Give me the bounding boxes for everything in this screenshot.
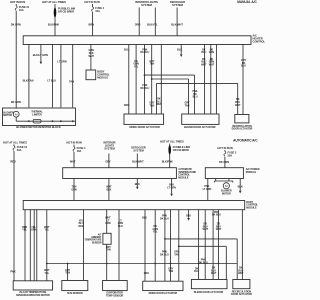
svg-text:DOOR ACTUATOR: DOOR ACTUATOR: [232, 128, 253, 131]
wire GRY/TAN to mode (bottom): [170, 210, 172, 282]
recirculation door actuator box (manual): [235, 115, 249, 123]
wire LT GRN: [60, 45, 62, 108]
svg-text:GRN: GRN: [105, 222, 111, 225]
wire GRY/DK BLU to recirc: [242, 45, 244, 115]
svg-text:HOT IN RUN: HOT IN RUN: [217, 146, 232, 150]
svg-text:BLK: BLK: [238, 185, 243, 189]
svg-text:SYSTEM: SYSTEM: [141, 3, 153, 7]
wire BRN head feed: [92, 4, 94, 7]
in-car temperature sensor box: [13, 281, 52, 290]
blower motor resistor block box: [2, 108, 75, 126]
svg-text:DOOR ACTUATOR: DOOR ACTUATOR: [231, 293, 252, 296]
wire BCM to in-car sensor 3: [33, 210, 35, 281]
blower motor M1: [13, 111, 19, 117]
svg-text:SYSTEM: SYSTEM: [172, 3, 184, 7]
svg-text:LIMITER: LIMITER: [32, 113, 42, 116]
svg-text:BLU: BLU: [241, 65, 246, 68]
svg-text:LT GRN: LT GRN: [167, 187, 176, 190]
svg-text:DK GRN: DK GRN: [219, 160, 229, 164]
svg-text:DK BLU: DK BLU: [140, 51, 149, 54]
svg-text:LT BLU: LT BLU: [47, 79, 56, 83]
svg-text:WHT: WHT: [156, 103, 162, 106]
svg-text:WHT: WHT: [202, 228, 208, 231]
svg-text:MODULE: MODULE: [246, 171, 257, 174]
svg-text:WHT: WHT: [216, 228, 222, 231]
svg-text:BLOWER MOTOR RESISTOR BLOCK: BLOWER MOTOR RESISTOR BLOCK: [16, 125, 61, 129]
svg-text:WHT: WHT: [201, 63, 207, 66]
svg-text:BLU: BLU: [142, 217, 147, 220]
wire DK GRN/YEL to mode (bottom): [154, 210, 156, 282]
svg-text:BLK: BLK: [106, 188, 111, 191]
fuse F10 30A: [13, 146, 15, 150]
svg-text:TEMP SENSOR: TEMP SENSOR: [106, 294, 123, 297]
wire BLK ground arrow (ATC): [136, 179, 138, 187]
junction bus D: [154, 263, 156, 265]
svg-text:10A: 10A: [19, 8, 24, 12]
wire DK GRN blower feed: [15, 4, 17, 6]
svg-text:GRN: GRN: [31, 229, 37, 232]
svg-text:MOTOR: MOTOR: [3, 114, 12, 117]
wire BLK ground arrow (BCM): [188, 210, 190, 218]
svg-text:SENSOR: SENSOR: [92, 242, 102, 244]
svg-text:TAN: TAN: [168, 270, 173, 273]
svg-text:HOT IN RUN: HOT IN RUN: [84, 0, 99, 4]
wire TAN/ORN to BCM: [73, 179, 75, 201]
svg-text:DK GRN: DK GRN: [11, 22, 21, 26]
junction resistor bus 2: [52, 120, 54, 122]
svg-text:LT GRN: LT GRN: [203, 188, 212, 191]
svg-text:A/T: A/T: [98, 233, 102, 236]
wire RED left rail: [13, 144, 15, 146]
wire BLK/WHT to ATC: [136, 154, 138, 168]
svg-text:30A: 30A: [17, 148, 22, 152]
wire BLK/PNK to ATC: [169, 144, 171, 168]
svg-text:10A: 10A: [77, 149, 82, 153]
svg-text:MODULE: MODULE: [178, 176, 189, 179]
junction bus A: [46, 263, 48, 265]
svg-text:MODULE: MODULE: [246, 206, 257, 209]
wire to blower motor right: [228, 179, 230, 182]
svg-text:TAN: TAN: [65, 272, 70, 275]
wire jog PNK/DK BLU to blend actuator: [145, 74, 195, 76]
svg-text:WHT: WHT: [209, 63, 215, 66]
svg-text:SYSTEM: SYSTEM: [104, 146, 114, 150]
wire blend 1 (bottom): [198, 210, 200, 280]
svg-text:YEL: YEL: [45, 229, 50, 232]
wire DK BLU/WHT to mode and recirc: [160, 45, 162, 115]
wire BLK/PNK head feed: [54, 4, 56, 36]
fuse F4 10A: [92, 7, 94, 11]
svg-text:25A: 25A: [228, 154, 233, 158]
wire jog2 to blend (bottom): [179, 245, 227, 247]
fuse F21 10A: [15, 6, 17, 10]
svg-text:BLU: BLU: [124, 47, 129, 51]
svg-text:BLK/PNK: BLK/PNK: [162, 160, 173, 164]
svg-text:HOT AT ALL TIMES: HOT AT ALL TIMES: [42, 0, 66, 4]
svg-text:WHT: WHT: [88, 55, 94, 58]
wire PNK/LT GRN to BCM: [207, 179, 209, 201]
fusible link A: [54, 8, 57, 18]
A/C power module box: [205, 168, 243, 179]
svg-text:WHT: WHT: [70, 160, 76, 164]
svg-text:TAN: TAN: [150, 63, 155, 66]
svg-text:DK GRN: DK GRN: [11, 100, 21, 104]
svg-text:PNK: PNK: [10, 270, 16, 274]
svg-text:OR CB BRKR: OR CB BRKR: [58, 10, 74, 14]
junction resistor bus 4: [72, 120, 74, 122]
svg-text:SENSOR/ASPIRATOR MOTOR: SENSOR/ASPIRATOR MOTOR: [16, 294, 50, 297]
blend door actuator box (bottom): [191, 280, 227, 289]
wire GRY to ATC: [108, 154, 110, 168]
svg-text:AMBIENT: AMBIENT: [91, 236, 102, 239]
svg-text:YEL: YEL: [153, 231, 158, 234]
junction bus E: [170, 263, 172, 265]
svg-text:DK BLU: DK BLU: [212, 214, 221, 217]
wire ORG to mode actuator: [128, 45, 130, 115]
svg-text:ORG: ORG: [135, 22, 141, 26]
svg-text:GRN: GRN: [209, 51, 215, 54]
wire DK GRN to power module: [224, 150, 226, 152]
wire BCM through ambient sensor: [106, 210, 108, 234]
svg-text:YEL: YEL: [45, 272, 50, 275]
svg-text:BLK: BLK: [177, 47, 182, 51]
svg-text:WHT: WHT: [238, 272, 244, 275]
svg-text:BLK: BLK: [186, 214, 191, 217]
svg-text:WHT: WHT: [235, 104, 241, 107]
svg-text:BLU: BLU: [201, 51, 206, 54]
svg-text:DK BLU: DK BLU: [160, 254, 169, 257]
body control module U2 (automatic): [23, 201, 245, 210]
blower motor connector bracket: [214, 180, 232, 182]
wire BLK/LT GRN with arrow: [40, 45, 42, 62]
wire WHT to ATC: [73, 145, 75, 147]
svg-text:BLK/WHT: BLK/WHT: [132, 160, 144, 164]
wire blend 4 (bottom): [217, 210, 219, 280]
recirculation door actuator box (bottom): [233, 280, 250, 289]
svg-text:ORN: ORN: [71, 188, 77, 191]
svg-text:HOT IN RUN: HOT IN RUN: [66, 141, 81, 145]
svg-text:RED: RED: [79, 225, 84, 228]
junction DK BLU/WHT: [160, 83, 162, 85]
svg-text:10A: 10A: [95, 9, 100, 13]
svg-text:BLK/LT GRN: BLK/LT GRN: [33, 53, 48, 57]
mode door actuator box (bottom): [143, 281, 183, 290]
wire PNK/DK BLU to mode (bottom): [164, 210, 166, 282]
wire BCM to evaporator sensor: [118, 210, 120, 281]
wire ORG from interior lights: [138, 8, 140, 36]
junction bus G: [218, 263, 220, 265]
wire jog DK BLU/WHT to recirc: [157, 82, 238, 84]
wire PNK/DK BLU to mode and blend: [144, 45, 146, 115]
svg-text:BLU: BLU: [193, 96, 198, 99]
wire BCM to in-car sensor 2: [29, 210, 31, 281]
svg-text:YEL: YEL: [134, 65, 139, 68]
wire ambient sensor to bus: [106, 244, 108, 280]
svg-text:TAN: TAN: [185, 104, 190, 107]
wire motor to resistor bus: [15, 117, 17, 121]
svg-text:BLK/YEL: BLK/YEL: [147, 22, 158, 26]
svg-text:MOTOR: MOTOR: [222, 192, 231, 195]
svg-text:BLEND DOOR ACTUATOR: BLEND DOOR ACTUATOR: [194, 291, 224, 294]
junction PNK/DK BLU (bottom): [164, 238, 166, 240]
svg-text:MANUAL A/C: MANUAL A/C: [237, 0, 257, 4]
A/C heater control head: [23, 36, 251, 45]
svg-text:MODE DOOR ACTUATOR: MODE DOOR ACTUATOR: [149, 292, 178, 295]
wire jog to recirc (bottom): [165, 238, 237, 240]
svg-text:HOT AT ALL TIMES: HOT AT ALL TIMES: [3, 140, 27, 144]
wire recirc straight (bottom): [241, 210, 243, 280]
fuse F4b 10A: [73, 147, 75, 151]
svg-text:GRY: GRY: [105, 160, 111, 164]
svg-text:MODULE: MODULE: [97, 75, 108, 79]
wire bus to sun sensor: [67, 264, 69, 281]
svg-text:BLEND DOOR ACTUATOR: BLEND DOOR ACTUATOR: [184, 125, 216, 129]
wire DK GRN/WHT to blend: [210, 45, 212, 115]
fuse F2 25A: [224, 152, 226, 156]
wire BCM to in-car sensor 1: [24, 210, 26, 281]
wire BLK/WHT from defogger: [176, 8, 178, 36]
svg-text:CONTROL: CONTROL: [253, 39, 266, 43]
junction resistor bus 1: [28, 120, 30, 122]
svg-text:TAN: TAN: [174, 254, 179, 257]
wire GRY/TAN to mode and blend: [151, 45, 153, 115]
svg-text:TAN: TAN: [106, 249, 111, 252]
svg-text:BLK/PNK: BLK/PNK: [48, 22, 59, 26]
wire to blower motor left: [215, 179, 217, 182]
wire DK BLU/WHT to blend: [204, 45, 206, 115]
svg-text:ORG: ORG: [144, 272, 150, 275]
svg-text:DK BLU: DK BLU: [140, 87, 149, 90]
wire DK BLU to mode (bottom): [178, 210, 180, 282]
svg-text:BLK: BLK: [118, 225, 123, 228]
sun sensor box: [62, 281, 88, 291]
svg-text:YEL: YEL: [22, 229, 27, 232]
svg-text:RED: RED: [10, 160, 16, 164]
body control module U1 (manual): [86, 70, 96, 80]
wire ORN/BLK to BCM: [90, 45, 92, 71]
svg-text:DK BLU: DK BLU: [160, 217, 169, 220]
junction jog2 (bottom): [178, 245, 180, 247]
wire TAN: [72, 45, 74, 108]
wire blend 3 (bottom): [212, 210, 214, 280]
automatic temperature control head: [63, 168, 177, 179]
wire blend 2 (bottom): [204, 210, 206, 280]
wire BLK/YEL: [154, 8, 156, 36]
A/T ambient temperature sensor box: [103, 233, 111, 244]
resistor bus wire: [16, 120, 75, 122]
svg-text:AUTOMATIC A/C: AUTOMATIC A/C: [233, 139, 258, 143]
svg-text:TEMPERATURE: TEMPERATURE: [84, 239, 101, 242]
wire to blend third: [215, 45, 217, 115]
svg-text:HOT AT ALL TIMES: HOT AT ALL TIMES: [160, 140, 184, 144]
junction PNK/DK BLU: [144, 74, 146, 76]
wire BLK ground arrow (power module): [239, 179, 241, 191]
svg-text:SYSTEM: SYSTEM: [133, 149, 143, 153]
evaporator temp sensor box: [103, 281, 128, 291]
wire BLK ground stub with arrow: [180, 45, 182, 55]
sensor common bus wire: [47, 263, 237, 265]
svg-text:DK BLU: DK BLU: [199, 261, 208, 264]
wire BLK/TAN: [28, 45, 30, 108]
svg-text:BLK: BLK: [135, 182, 140, 186]
blend door actuator box (manual): [182, 114, 219, 124]
svg-text:BLU: BLU: [194, 270, 199, 273]
wire WHT/BLK to BCM: [108, 179, 110, 201]
wire BCM to in-car sensor 3b: [36, 210, 38, 281]
blower motor M2: [223, 183, 229, 189]
svg-text:BRN: BRN: [88, 22, 94, 26]
svg-text:BLK/TAN: BLK/TAN: [23, 79, 34, 83]
svg-text:TAN: TAN: [69, 80, 74, 84]
wire BLU to mode (bottom): [144, 210, 146, 282]
wire jog GRY/TAN to blend actuator: [152, 78, 189, 80]
junction resistor bus 3: [60, 120, 62, 122]
svg-text:SUN SENSOR: SUN SENSOR: [67, 292, 83, 295]
junction bus B: [67, 263, 69, 265]
fusible link B: [168, 145, 171, 155]
wire LT BLU: [52, 45, 54, 108]
svg-text:LT GRN: LT GRN: [57, 59, 66, 63]
junction bus C: [106, 263, 108, 265]
mode door actuator box (manual): [124, 114, 164, 124]
svg-text:MODE DOOR ACTUATOR: MODE DOOR ACTUATOR: [129, 125, 159, 129]
junction bus F: [198, 263, 200, 265]
wire BCM to in-car sensor 4: [46, 210, 48, 281]
thermal limiter: [33, 119, 41, 123]
svg-text:WHT: WHT: [211, 272, 217, 275]
svg-text:OR CB BRKR: OR CB BRKR: [173, 148, 189, 152]
wire BLK/LT GRN ground arrow: [171, 179, 173, 194]
svg-text:HOT IN RUN: HOT IN RUN: [10, 0, 25, 4]
junction GRY/TAN: [151, 78, 153, 80]
svg-text:TAN: TAN: [150, 104, 155, 107]
wire DK GRN/YEL to mode actuator: [135, 45, 137, 115]
wire BCM to sun sensor: [83, 210, 85, 281]
svg-text:BLK/WHT: BLK/WHT: [171, 22, 183, 26]
svg-text:ORG: ORG: [124, 103, 130, 107]
